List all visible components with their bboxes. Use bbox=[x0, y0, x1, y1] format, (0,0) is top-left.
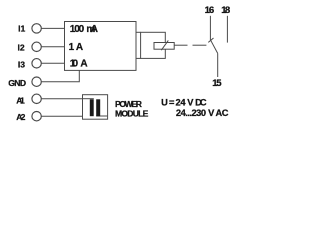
power icon top line bbox=[83, 98, 94, 100]
contact arm bbox=[211, 40, 218, 53]
svg-text:15: 15 bbox=[212, 78, 222, 89]
terminal I1 bbox=[32, 24, 41, 33]
svg-text:I1: I1 bbox=[18, 24, 25, 34]
svg-text:1A: 1A bbox=[69, 42, 84, 53]
wire GND to box bottom bbox=[41, 70, 79, 81]
actuator lead from breaker bbox=[174, 44, 187, 46]
svg-text:I2: I2 bbox=[18, 42, 25, 52]
svg-text:A1: A1 bbox=[16, 95, 25, 105]
power icon bar left bbox=[90, 99, 94, 116]
contact barb bbox=[208, 38, 213, 42]
wire I1 to box bbox=[41, 27, 64, 29]
svg-text:MODULE: MODULE bbox=[115, 108, 149, 118]
terminal GND bbox=[32, 77, 41, 86]
relay module box bbox=[141, 32, 166, 58]
svg-text:100mA: 100mA bbox=[70, 24, 98, 35]
contact lead 18 bbox=[226, 16, 228, 43]
wire box to relay module top bbox=[136, 31, 141, 33]
contact lead 15 bbox=[217, 53, 219, 77]
svg-text:18: 18 bbox=[221, 5, 231, 16]
actuator dashed link bbox=[193, 44, 207, 46]
power icon bar right bbox=[96, 99, 100, 116]
wire A1 to power module bbox=[41, 98, 82, 100]
terminal A2 bbox=[32, 112, 41, 121]
contact lead 16 bbox=[209, 16, 211, 40]
terminal A1 bbox=[32, 94, 41, 103]
terminal I2 bbox=[32, 42, 41, 51]
wire box to relay module bottom bbox=[136, 57, 141, 59]
svg-text:GND: GND bbox=[8, 78, 26, 88]
breaker element (rect with diagonal) bbox=[154, 40, 174, 50]
power icon bottom line bbox=[96, 115, 107, 117]
wire I3 to box bbox=[41, 62, 64, 64]
svg-text:I3: I3 bbox=[18, 59, 25, 69]
svg-text:16: 16 bbox=[205, 5, 215, 16]
terminal I3 bbox=[32, 59, 41, 68]
power module box bbox=[83, 95, 108, 120]
svg-text:A2: A2 bbox=[16, 112, 25, 122]
main device box bbox=[65, 22, 137, 71]
wire A2 to power module bbox=[41, 115, 82, 117]
svg-text:24...230VAC: 24...230VAC bbox=[176, 108, 229, 118]
wire I2 to box bbox=[41, 46, 64, 48]
